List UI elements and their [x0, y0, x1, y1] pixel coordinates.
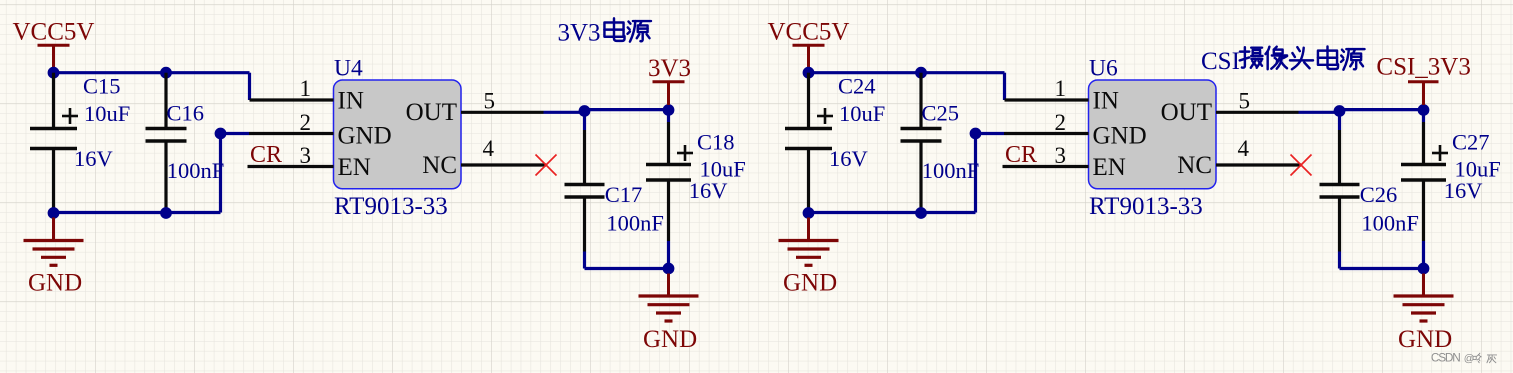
svg-text:C15: C15: [83, 73, 121, 98]
svg-text:U4: U4: [334, 56, 363, 82]
junction at C16 bottom: [160, 207, 172, 219]
svg-text:C24: C24: [838, 73, 876, 98]
watermark CSDN @咚灰: [1431, 351, 1497, 365]
svg-text:CSI: CSI: [1201, 48, 1240, 75]
wire OUT bus: [1299, 110, 1424, 130]
svg-text:10uF: 10uF: [84, 101, 130, 126]
junction at output power: [1418, 104, 1430, 116]
pin 3 EN: [248, 143, 334, 168]
svg-text:CSI_3V3: CSI_3V3: [1376, 54, 1470, 81]
ground GND left: [779, 218, 839, 297]
svg-text:C26: C26: [1360, 182, 1398, 207]
junction at C15 bottom: [48, 207, 60, 219]
pin 5 OUT: [1216, 89, 1299, 114]
text label 3V3电源: [558, 18, 652, 46]
wire bottom bus to GND: [54, 134, 250, 213]
pin 4 NC: [461, 136, 546, 165]
junction at VCC5V/C24: [803, 67, 815, 79]
svg-text:CR: CR: [1005, 142, 1037, 168]
net label CR: [250, 142, 282, 168]
capacitor C17 100nF: [565, 130, 664, 252]
ground GND output: [639, 274, 699, 354]
svg-text:C16: C16: [167, 100, 205, 125]
junction at C25 top: [915, 67, 927, 79]
no-connect X marker on pin 4: [536, 155, 557, 176]
wire output bottom bus: [585, 241, 669, 269]
svg-text:GND: GND: [338, 123, 392, 150]
svg-text:GND: GND: [1398, 326, 1452, 353]
pin 5 OUT: [461, 89, 544, 114]
op-amp-style regulator U4 RT9013-33: [334, 56, 462, 220]
svg-text:IN: IN: [338, 88, 364, 115]
wire bottom bus to GND: [809, 134, 1005, 213]
svg-text:16V: 16V: [1444, 178, 1483, 203]
svg-text:16V: 16V: [74, 146, 113, 171]
op-amp-style regulator U6 RT9013-33: [1089, 56, 1217, 220]
svg-text:100nF: 100nF: [922, 158, 980, 183]
net label CR: [1005, 142, 1037, 168]
svg-text:1: 1: [300, 76, 312, 101]
ground GND left: [24, 218, 84, 297]
svg-text:3V3: 3V3: [558, 19, 601, 46]
capacitor C16 100nF: [146, 73, 225, 213]
svg-text:RT9013-33: RT9013-33: [334, 193, 448, 220]
pin 1 IN: [1005, 76, 1089, 101]
svg-text:4: 4: [1238, 136, 1250, 161]
svg-text:OUT: OUT: [1161, 99, 1212, 126]
junction at C26 top: [1334, 105, 1346, 117]
svg-text:NC: NC: [422, 152, 457, 179]
junction at C25 bottom: [915, 207, 927, 219]
svg-text:IN: IN: [1093, 88, 1119, 115]
svg-text:GND: GND: [783, 270, 837, 297]
power port VCC5V: [768, 19, 850, 73]
pin 2 GND: [249, 110, 334, 135]
svg-text:100nF: 100nF: [1361, 211, 1419, 236]
svg-text:C25: C25: [922, 100, 960, 125]
svg-text:C18: C18: [697, 130, 735, 155]
ground GND output: [1394, 274, 1454, 354]
pin 3 EN: [1003, 143, 1089, 168]
svg-text:2: 2: [300, 110, 312, 135]
capacitor C24 10uF 16V: [785, 73, 885, 213]
wire output bottom bus: [1340, 241, 1424, 269]
capacitor C15 10uF 16V: [30, 73, 130, 213]
pin 4 NC: [1216, 136, 1301, 165]
svg-text:3: 3: [300, 143, 312, 168]
svg-text:3: 3: [1055, 143, 1067, 168]
svg-text:U6: U6: [1089, 56, 1118, 82]
pin 2 GND: [1004, 110, 1089, 135]
wire OUT bus: [544, 110, 669, 130]
power port CSI_3V3: [1376, 54, 1470, 105]
svg-text:VCC5V: VCC5V: [768, 19, 850, 46]
svg-text:2: 2: [1055, 110, 1067, 135]
svg-text:C17: C17: [605, 182, 643, 207]
svg-text:VCC5V: VCC5V: [13, 19, 95, 46]
svg-text:100nF: 100nF: [606, 211, 664, 236]
svg-text:GND: GND: [643, 326, 697, 353]
no-connect X marker on pin 4: [1291, 155, 1312, 176]
svg-text:C27: C27: [1452, 130, 1490, 155]
svg-text:GND: GND: [28, 270, 82, 297]
junction at VCC5V/C15: [48, 67, 60, 79]
power port VCC5V: [13, 19, 95, 73]
capacitor C25 100nF: [901, 73, 980, 213]
text label CSI摄像头电源: [1201, 46, 1365, 74]
svg-text:5: 5: [1239, 89, 1251, 114]
svg-text:GND: GND: [1093, 123, 1147, 150]
svg-text:100nF: 100nF: [167, 158, 225, 183]
capacitor C18 10uF 16V: [646, 122, 746, 241]
junction at output GND: [663, 263, 675, 275]
svg-text:OUT: OUT: [406, 99, 457, 126]
svg-text:EN: EN: [1093, 154, 1126, 181]
svg-text:1: 1: [1055, 76, 1067, 101]
svg-text:CR: CR: [250, 142, 282, 168]
capacitor C27 10uF 16V: [1401, 122, 1501, 241]
power port 3V3: [648, 55, 691, 105]
junction at output power: [663, 104, 675, 116]
junction at C17 top: [579, 105, 591, 117]
svg-text:CSDN: CSDN: [1431, 351, 1460, 365]
junction at C16 top: [160, 67, 172, 79]
junction at C24 bottom: [803, 207, 815, 219]
junction at EN wire: [970, 128, 982, 140]
svg-text:16V: 16V: [689, 178, 728, 203]
svg-text:RT9013-33: RT9013-33: [1089, 193, 1203, 220]
capacitor C26 100nF: [1320, 130, 1419, 252]
pin 1 IN: [250, 76, 334, 101]
svg-text:NC: NC: [1177, 152, 1212, 179]
svg-text:16V: 16V: [829, 146, 868, 171]
svg-text:4: 4: [483, 136, 495, 161]
svg-text:EN: EN: [338, 154, 371, 181]
svg-text:3V3: 3V3: [648, 55, 691, 82]
wire VCC5V top bus: [809, 73, 1005, 100]
svg-text:5: 5: [484, 89, 496, 114]
wire VCC5V top bus: [54, 73, 250, 100]
svg-text:10uF: 10uF: [839, 101, 885, 126]
junction at EN wire: [215, 128, 227, 140]
junction at output GND: [1418, 263, 1430, 275]
